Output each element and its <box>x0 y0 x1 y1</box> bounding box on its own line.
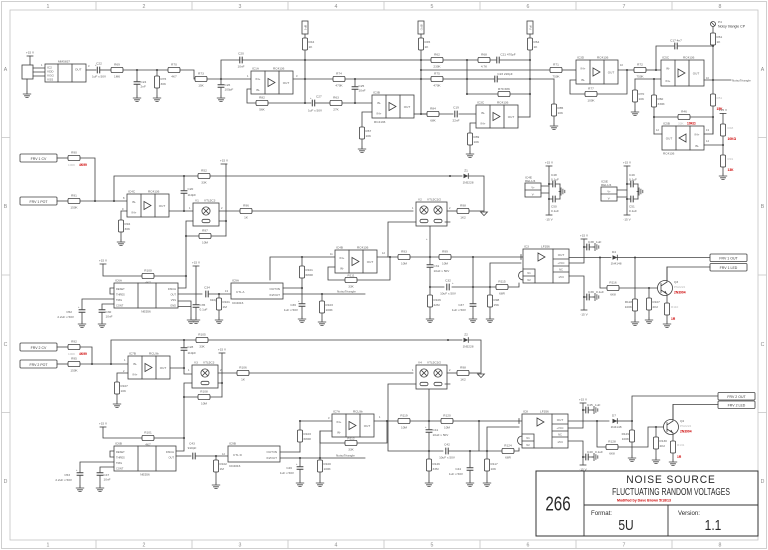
svg-text:+15 V: +15 V <box>580 234 589 238</box>
connector FRV 1 POT <box>20 197 57 205</box>
svg-text:R79 68K: R79 68K <box>498 87 511 91</box>
svg-text:R97: R97 <box>202 229 208 233</box>
svg-text:R72: R72 <box>637 63 643 67</box>
wire IC3 out <box>569 257 611 259</box>
svg-text:R89: R89 <box>474 135 480 139</box>
svg-text:R116: R116 <box>609 281 616 285</box>
svg-text:10uF x 50V: 10uF x 50V <box>434 269 451 273</box>
svg-text:IC3D: IC3D <box>577 56 585 60</box>
wire <box>410 420 441 422</box>
resistor R120 <box>441 414 453 430</box>
long wire y176 <box>184 175 450 177</box>
ground <box>425 481 433 487</box>
resistor R84 <box>427 107 439 123</box>
svg-text:R95: R95 <box>71 357 77 361</box>
ground side cluster A <box>559 184 565 199</box>
svg-text:R128: R128 <box>608 440 616 444</box>
wire V3 pins <box>184 383 222 438</box>
svg-text:Modified by Dave Brown 5/18/13: Modified by Dave Brown 5/18/13 <box>617 498 672 503</box>
input header J1 <box>22 65 33 79</box>
resistor R85 <box>551 79 564 124</box>
node <box>299 420 301 422</box>
svg-text:RC4136: RC4136 <box>683 56 695 60</box>
connector FRV 1 CV <box>20 154 57 162</box>
wire <box>80 347 92 364</box>
wire feedback top <box>114 176 184 201</box>
svg-text:OUT: OUT <box>367 260 374 264</box>
svg-text:R126: R126 <box>433 462 441 466</box>
resistor R130 <box>653 427 667 458</box>
resistor R128 <box>606 440 618 456</box>
node <box>299 457 301 459</box>
svg-text:68K: 68K <box>430 119 436 123</box>
capacitor C36 <box>284 288 306 317</box>
svg-text:CD4016: CD4016 <box>229 464 241 468</box>
resistor R126 <box>426 451 440 481</box>
resistor R100b <box>317 431 331 481</box>
wire feedback IC3D <box>570 70 627 94</box>
svg-text:OUT: OUT <box>171 293 177 297</box>
node <box>110 363 112 365</box>
connector FRV 2 OUT <box>718 393 755 401</box>
connector FRV 1 OUT <box>710 254 747 262</box>
wire <box>80 158 95 201</box>
svg-text:IC4B: IC4B <box>336 246 343 250</box>
svg-text:C47: C47 <box>104 473 110 477</box>
svg-text:R64: R64 <box>534 40 540 44</box>
node <box>183 396 185 398</box>
svg-text:C23 220pF: C23 220pF <box>497 72 512 76</box>
svg-text:1uF: 1uF <box>596 240 601 244</box>
wire IC8 out <box>568 420 609 422</box>
svg-text:680R: 680R <box>304 437 312 441</box>
svg-text:FRV 1 OUT: FRV 1 OUT <box>719 257 738 261</box>
wire IN+ bus IC5C <box>635 78 661 80</box>
svg-text:+VCC: +VCC <box>558 261 565 265</box>
svg-text:R67: R67 <box>366 129 372 133</box>
svg-text:68R: 68R <box>505 456 511 460</box>
supply +15V IC2 <box>26 51 35 57</box>
svg-text:C37: C37 <box>458 303 464 307</box>
svg-text:10K: 10K <box>366 134 372 138</box>
svg-text:4.7K: 4.7K <box>481 65 488 69</box>
wire V2 bottom loop <box>388 222 450 257</box>
capacitor C40 <box>583 450 603 460</box>
svg-text:TRIG: TRIG <box>116 461 122 465</box>
svg-text:IC3C: IC3C <box>477 101 485 105</box>
svg-text:7: 7 <box>623 4 626 10</box>
svg-text:3: 3 <box>239 4 242 10</box>
node <box>183 367 185 369</box>
svg-text:IN+: IN+ <box>695 133 700 137</box>
wire <box>447 372 457 374</box>
wire <box>57 363 68 365</box>
svg-text:OUT: OUT <box>508 115 515 119</box>
ground <box>645 318 653 324</box>
capacitor C27 <box>308 95 323 113</box>
resistor R92 red 4K99 <box>68 340 87 357</box>
capacitor C25 <box>352 79 366 103</box>
node <box>466 93 468 95</box>
svg-text:IC3: IC3 <box>524 245 529 249</box>
svg-text:10M: 10M <box>442 262 448 266</box>
svg-text:R100: R100 <box>144 269 152 273</box>
wire <box>618 427 667 447</box>
svg-text:R119: R119 <box>400 414 407 418</box>
ground <box>296 481 304 487</box>
svg-text:C26: C26 <box>225 83 231 87</box>
svg-text:R115: R115 <box>498 280 505 284</box>
wire IC3C out <box>518 116 530 118</box>
wire <box>447 210 457 212</box>
capacitor C41 <box>425 389 449 451</box>
svg-text:RC4136: RC4136 <box>273 67 285 71</box>
svg-text:27K: 27K <box>333 108 339 112</box>
capacitor C22 <box>92 62 107 79</box>
svg-text:C25: C25 <box>359 84 365 88</box>
svg-text:IC7A: IC7A <box>333 410 341 414</box>
resistor R82 <box>256 96 268 112</box>
svg-text:R105: R105 <box>198 333 206 337</box>
wire IC4C out <box>169 210 193 212</box>
resistor R96 <box>240 204 252 220</box>
wire <box>514 448 519 451</box>
svg-text:D: D <box>4 479 8 485</box>
ground <box>192 318 200 324</box>
wire <box>654 117 723 145</box>
wire base line Q4 <box>597 421 606 447</box>
node <box>389 256 391 258</box>
svg-text:0 dB: 0 dB <box>304 25 308 31</box>
svg-text:R92: R92 <box>71 340 77 344</box>
node <box>183 175 185 177</box>
row labels left <box>4 67 8 485</box>
svg-text:R131: R131 <box>677 443 685 447</box>
wire <box>646 69 661 71</box>
svg-text:+15 V: +15 V <box>579 398 588 402</box>
svg-text:NOISE SOURCE: NOISE SOURCE <box>626 474 716 486</box>
resistor R112 <box>345 437 357 452</box>
svg-text:PN2222: PN2222 <box>674 285 685 289</box>
svg-text:R90: R90 <box>71 151 77 155</box>
svg-text:6K8: 6K8 <box>609 452 615 456</box>
node <box>113 200 115 202</box>
svg-text:+15 V: +15 V <box>719 108 728 112</box>
resistor R79 <box>498 87 511 97</box>
resistor R118 <box>625 258 638 321</box>
capacitor C51 <box>627 196 638 213</box>
resistor R119 <box>398 414 410 430</box>
capacitor C20b <box>181 176 197 211</box>
dB label box Full <box>527 21 533 34</box>
svg-text:7: 7 <box>623 543 626 549</box>
timer IC6B NE556 <box>114 442 176 477</box>
resistor R107b <box>114 373 128 402</box>
resistor R45 <box>418 34 430 114</box>
svg-text:RESET: RESET <box>116 287 125 291</box>
ground side C38 <box>593 243 599 250</box>
svg-text:0.1uF: 0.1uF <box>200 308 208 312</box>
op-amp IC5B mirrored <box>656 122 709 156</box>
svg-text:N2: N2 <box>527 278 531 282</box>
svg-text:R46: R46 <box>681 110 687 114</box>
svg-text:R48: R48 <box>728 126 734 130</box>
svg-text:C48: C48 <box>551 173 557 177</box>
svg-text:C17 4n7: C17 4n7 <box>670 39 682 43</box>
ground <box>76 486 84 492</box>
op-amp IC3B <box>372 91 414 125</box>
node <box>653 78 655 80</box>
zener Z1 <box>450 169 484 212</box>
vactrol V2 <box>412 198 451 227</box>
svg-text:IC7B: IC7B <box>129 352 136 356</box>
node <box>386 420 388 422</box>
node <box>220 78 222 80</box>
column labels bottom <box>47 543 722 549</box>
wire hold line <box>430 283 519 287</box>
svg-text:750K: 750K <box>636 75 644 79</box>
svg-text:C20: C20 <box>238 52 244 56</box>
resistor R98a <box>457 204 469 220</box>
svg-text:R106: R106 <box>239 366 247 370</box>
node <box>429 286 431 288</box>
wire IC6B out <box>176 455 191 457</box>
svg-text:FRV 2 CV: FRV 2 CV <box>31 346 47 350</box>
svg-text:100pF: 100pF <box>225 88 234 92</box>
svg-text:110pF: 110pF <box>188 193 197 197</box>
svg-text:R111: R111 <box>348 274 355 278</box>
ground side C45 <box>592 406 598 413</box>
op-amp IC4C <box>122 190 169 218</box>
node <box>354 102 356 104</box>
svg-text:R101: R101 <box>306 268 314 272</box>
svg-text:R98: R98 <box>460 204 466 208</box>
svg-text:Noisy triangle CP: Noisy triangle CP <box>718 25 746 29</box>
node <box>420 69 422 71</box>
capacitor C30 <box>99 310 113 322</box>
supply +15V C45 <box>568 398 588 429</box>
svg-text:4K99: 4K99 <box>79 163 87 167</box>
node <box>354 78 356 80</box>
wire <box>80 363 128 365</box>
ground <box>358 147 366 153</box>
svg-text:OUT: OUT <box>169 456 175 460</box>
svg-text:10KΩ: 10KΩ <box>687 122 696 126</box>
svg-text:+15 V: +15 V <box>220 159 229 163</box>
svg-text:DISCH: DISCH <box>168 287 176 291</box>
op-amp IC7B <box>123 352 170 380</box>
svg-text:1M: 1M <box>220 467 225 471</box>
reference IC5E <box>601 180 617 202</box>
svg-text:1M: 1M <box>223 305 228 309</box>
svg-text:VTL5C3/2: VTL5C3/2 <box>427 198 441 202</box>
svg-text:33K: 33K <box>348 448 354 452</box>
node <box>648 287 650 289</box>
capacitor C39 <box>584 290 604 300</box>
svg-text:CONT: CONT <box>116 467 124 471</box>
ground <box>669 460 677 466</box>
analog switch IC9B <box>222 442 280 469</box>
ground <box>187 318 195 324</box>
svg-text:56K: 56K <box>259 108 265 112</box>
svg-text:15K: 15K <box>494 303 500 307</box>
svg-text:OUT: OUT <box>693 72 700 76</box>
resistor R101b <box>216 294 230 318</box>
svg-text:VTL5C3: VTL5C3 <box>204 199 216 203</box>
wire noisy triangle out <box>704 79 731 81</box>
node <box>301 287 303 289</box>
svg-text:2K2: 2K2 <box>660 444 666 448</box>
capacitor C28 <box>181 340 197 368</box>
frame row ticks left <box>2 138 11 413</box>
svg-text:GND: GND <box>170 304 176 308</box>
svg-text:R68: R68 <box>481 53 487 57</box>
svg-text:REL1/4: REL1/4 <box>525 179 536 183</box>
svg-text:5: 5 <box>431 543 434 549</box>
node <box>466 59 468 61</box>
diode D7 <box>611 414 622 430</box>
resistor R69 <box>111 63 123 79</box>
svg-text:-VCC: -VCC <box>557 440 563 444</box>
resistor R99 <box>439 250 451 266</box>
node <box>634 256 636 258</box>
node <box>472 286 474 288</box>
ground side C39 <box>593 293 599 300</box>
node <box>472 256 474 258</box>
svg-text:+15 V: +15 V <box>545 161 554 165</box>
svg-text:N2: N2 <box>526 443 530 447</box>
svg-text:NE556: NE556 <box>140 473 150 477</box>
wire <box>453 419 522 452</box>
zener Z2 <box>448 333 481 374</box>
node <box>489 286 491 288</box>
svg-text:+15 V: +15 V <box>26 51 35 55</box>
wire <box>57 200 68 202</box>
svg-text:R44: R44 <box>309 40 315 44</box>
svg-text:1uF x 50V: 1uF x 50V <box>284 308 299 312</box>
svg-text:Full: Full <box>529 25 533 30</box>
node <box>626 69 628 71</box>
resistor R72 <box>634 63 646 79</box>
ground <box>486 317 494 323</box>
svg-text:-15 V: -15 V <box>579 468 587 472</box>
wire <box>100 69 111 71</box>
wire IC9A right <box>283 288 365 294</box>
resistor R70 <box>168 63 180 79</box>
svg-text:5: 5 <box>431 4 434 10</box>
wire <box>293 78 333 80</box>
dB label box -3dB <box>418 21 424 34</box>
svg-text:1.1: 1.1 <box>705 517 722 534</box>
svg-text:3: 3 <box>239 543 242 549</box>
node <box>225 220 227 222</box>
node <box>304 102 306 104</box>
svg-text:IN-: IN- <box>256 88 260 92</box>
svg-text:IN+: IN+ <box>340 256 345 260</box>
svg-text:CTL D: CTL D <box>233 453 243 457</box>
capacitor C26 <box>218 79 234 96</box>
resistor R115 <box>496 280 508 296</box>
node <box>429 256 431 258</box>
capacitor C17 <box>656 39 713 71</box>
svg-text:10M: 10M <box>401 262 407 266</box>
ground side cluster B <box>637 184 643 199</box>
op-amp IC4B <box>330 246 385 274</box>
wire IN+ line IC7A <box>300 420 332 422</box>
svg-text:D7: D7 <box>612 414 616 418</box>
capacitor C37 <box>452 287 477 317</box>
svg-text:R107: R107 <box>653 300 661 304</box>
svg-text:100K: 100K <box>68 163 76 167</box>
svg-text:IN-: IN- <box>133 362 137 366</box>
svg-text:33K: 33K <box>199 345 205 349</box>
svg-text:1: 1 <box>47 543 50 549</box>
long wire y211 <box>252 210 413 212</box>
svg-text:0.1uF: 0.1uF <box>596 290 604 294</box>
svg-text:FRV 1 CV: FRV 1 CV <box>31 157 47 161</box>
svg-text:-15 V: -15 V <box>580 313 588 317</box>
svg-text:V1: V1 <box>195 199 199 203</box>
svg-text:OUT: OUT <box>160 366 167 370</box>
svg-text:FRV 1 POT: FRV 1 POT <box>29 200 48 204</box>
svg-text:IN+: IN+ <box>481 122 486 126</box>
capacitor C42 <box>439 443 456 460</box>
svg-text:R103: R103 <box>304 432 312 436</box>
svg-text:LF356: LF356 <box>540 410 549 414</box>
svg-text:0.1uF: 0.1uF <box>629 178 637 182</box>
supply -15V C39 <box>569 276 589 317</box>
wire <box>268 60 311 103</box>
wire <box>541 186 549 193</box>
resistor R61 <box>710 27 722 47</box>
dB label box 0dB <box>302 21 308 34</box>
svg-text:10K: 10K <box>474 140 480 144</box>
svg-text:0.1uF: 0.1uF <box>551 178 559 182</box>
node <box>447 339 449 341</box>
svg-text:-15 V: -15 V <box>623 218 631 222</box>
svg-text:22M: 22M <box>434 303 440 307</box>
resistor R101a <box>142 431 154 447</box>
supply +15V R48 <box>719 108 728 124</box>
wire <box>315 102 330 104</box>
resistor R103b <box>297 421 311 452</box>
wire <box>617 190 627 197</box>
svg-text:D: D <box>761 479 765 485</box>
svg-text:R71: R71 <box>553 63 559 67</box>
noise generator IC2 MM5837 <box>41 60 90 83</box>
svg-text:NoisyTriangle: NoisyTriangle <box>732 79 751 83</box>
ground <box>212 483 220 489</box>
svg-text:C34: C34 <box>204 286 210 290</box>
resistor R98b <box>487 263 521 317</box>
node <box>304 78 306 80</box>
capacitor C23 <box>495 72 513 82</box>
wire feedback IC1A <box>247 89 256 103</box>
node <box>420 59 422 61</box>
capacitor C19 <box>452 106 459 123</box>
vactrol V1 <box>189 199 223 227</box>
svg-text:R45: R45 <box>425 40 431 44</box>
node <box>319 457 321 459</box>
wire <box>27 68 45 92</box>
svg-text:VTL5C3: VTL5C3 <box>203 361 215 365</box>
svg-text:8: 8 <box>719 543 722 549</box>
svg-text:R120: R120 <box>443 414 451 418</box>
svg-text:IC5C: IC5C <box>662 56 670 60</box>
supply +15V V1 <box>220 159 229 237</box>
svg-text:Q4: Q4 <box>680 419 684 423</box>
svg-text:R75: R75 <box>434 72 440 76</box>
